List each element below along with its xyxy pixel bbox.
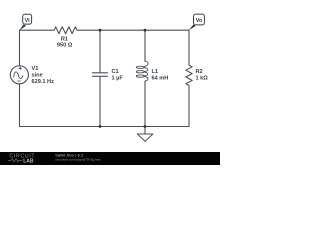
svg-text:R2: R2 — [196, 69, 203, 75]
svg-text:1 µF: 1 µF — [112, 75, 124, 81]
svg-text:Vo: Vo — [196, 18, 203, 24]
svg-text:LAB: LAB — [23, 158, 34, 164]
svg-text:L1: L1 — [152, 69, 159, 75]
svg-text:V1: V1 — [32, 66, 39, 72]
svg-text:circuitlab.com/c/fgmd7973j2max: circuitlab.com/c/fgmd7973j2max — [55, 158, 101, 162]
svg-text:C1: C1 — [112, 69, 119, 75]
svg-text:1 kΩ: 1 kΩ — [196, 75, 209, 81]
svg-text:Vi: Vi — [25, 18, 30, 24]
svg-text:629.1 Hz: 629.1 Hz — [32, 79, 55, 85]
svg-text:sine: sine — [32, 72, 43, 78]
svg-text:64 mH: 64 mH — [152, 75, 169, 81]
svg-text:950 Ω: 950 Ω — [57, 43, 73, 49]
